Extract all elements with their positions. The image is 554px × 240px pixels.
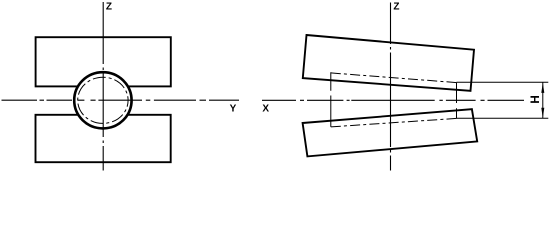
- left view: horizontal centerline Y: [2, 99, 240, 101]
- H dimension: bottom extension line: [457, 117, 549, 119]
- right view: workpiece hidden right end: [456, 83, 458, 119]
- svg-text:Z: Z: [106, 2, 112, 13]
- left view: top roller block: [36, 37, 171, 86]
- right view: workpiece bottom chain edge: [331, 118, 457, 127]
- H dimension: dimension line with arrows: [542, 82, 544, 118]
- H dimension: top arrowhead: [541, 83, 544, 93]
- right view: workpiece top chain edge: [331, 73, 457, 83]
- right view: bottom roller (tilted): [303, 109, 478, 156]
- svg-text:Y: Y: [230, 104, 237, 115]
- left view: workpiece outer circle: [74, 72, 131, 128]
- right view: top roller (tilted): [303, 35, 474, 91]
- svg-text:H: H: [529, 95, 542, 103]
- left view: bottom roller block: [36, 115, 171, 162]
- left view: workpiece inner chain circle: [78, 77, 128, 123]
- right view: workpiece hidden left end: [330, 72, 332, 127]
- right view: vertical centerline Z: [390, 3, 392, 171]
- H dimension: top extension line: [457, 81, 549, 83]
- H dimension: bottom arrowhead: [541, 108, 544, 118]
- svg-text:Z: Z: [393, 2, 399, 13]
- svg-text:X: X: [262, 104, 269, 115]
- left view: vertical centerline Z: [102, 2, 104, 171]
- right view: horizontal centerline X: [262, 99, 524, 101]
